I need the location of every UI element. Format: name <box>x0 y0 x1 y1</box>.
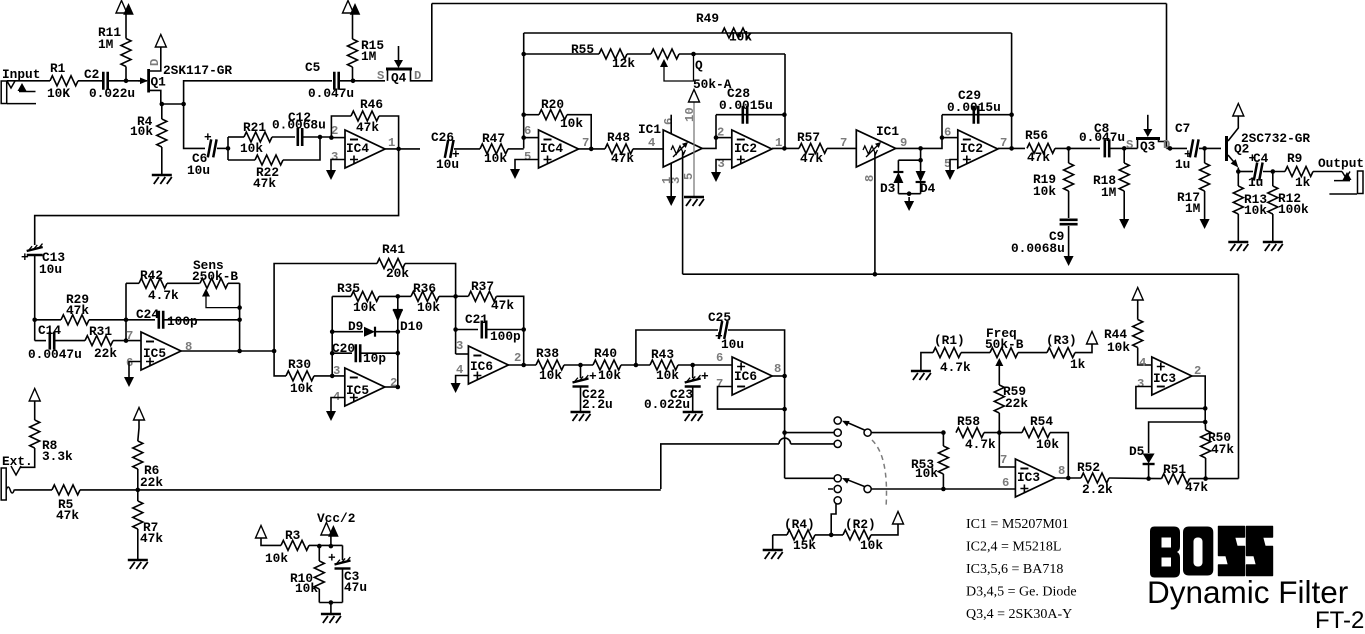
svg-text:R31: R31 <box>89 324 112 339</box>
wire R22 to top rail <box>283 137 320 160</box>
junction R50 top <box>1203 420 1208 425</box>
wire IC1b out <box>896 115 942 149</box>
wire to IC4 pin2 <box>331 137 345 139</box>
resistor R48 <box>605 144 633 154</box>
wire R4 to R2 <box>815 534 843 536</box>
wire IC2a pin3 <box>716 160 732 169</box>
resistor R54 <box>1022 428 1050 438</box>
svg-text:D3: D3 <box>880 181 896 196</box>
svg-text:0.0015u: 0.0015u <box>719 98 773 113</box>
BOSS logo <box>1150 527 1180 578</box>
power arrow above R8 <box>29 389 40 402</box>
svg-text:47k: 47k <box>1211 442 1234 457</box>
junction R20 left <box>521 112 526 117</box>
junction pin2/R46 <box>329 135 334 140</box>
wire IC6a pin4 <box>456 376 469 380</box>
switch mechanical link dashed <box>872 440 886 508</box>
input jack J1 <box>1 81 7 104</box>
svg-text:R46: R46 <box>360 97 383 112</box>
junction IC5b output <box>396 385 401 390</box>
junction D3/D4 <box>918 146 923 151</box>
svg-text:10k: 10k <box>240 141 263 156</box>
svg-text:2.2k: 2.2k <box>1082 482 1113 497</box>
wire R42 to Sens <box>167 282 200 284</box>
bias arrow IC2a pin3 <box>715 168 717 172</box>
svg-text:22k: 22k <box>1005 396 1028 411</box>
op-amp IC3a <box>1015 459 1055 497</box>
wire Freq wiper to R59 <box>998 364 1000 385</box>
svg-text:R1: R1 <box>50 61 66 76</box>
resistor R19 body <box>1064 163 1074 191</box>
junction pot wiper <box>691 52 696 57</box>
resistor R8 body <box>30 420 40 448</box>
svg-text:D5: D5 <box>1129 444 1145 459</box>
wire R18 down <box>1123 191 1125 215</box>
wire pot to (R3) <box>1018 352 1047 354</box>
capacitor C29 <box>974 106 978 124</box>
wire D bottom rail <box>898 193 920 195</box>
junction C20 right <box>396 351 401 356</box>
wire R4 to gnd <box>161 147 163 174</box>
op-amp IC6b <box>732 357 772 395</box>
resistor R44 body <box>1133 320 1143 348</box>
Q4 drain lead riser <box>411 4 432 81</box>
svg-text:R3: R3 <box>285 528 301 543</box>
svg-text:IC1: IC1 <box>638 122 661 137</box>
svg-text:12k: 12k <box>612 56 635 71</box>
wire IC4b output <box>579 148 606 150</box>
IC1a pin6 stub <box>670 115 672 134</box>
junction R50 bottom <box>1203 476 1208 481</box>
svg-text:1M: 1M <box>1101 185 1117 200</box>
junction C21 left <box>453 327 458 332</box>
wire up to C25 <box>636 330 718 365</box>
wire to C22 <box>580 365 582 378</box>
wire C14 to R31 <box>55 340 85 342</box>
svg-text:R40: R40 <box>594 346 617 361</box>
svg-text:+: + <box>204 130 212 145</box>
wire R55 to pot Q <box>627 53 651 55</box>
svg-text:IC2: IC2 <box>960 141 983 156</box>
output jack J2 <box>1342 172 1350 179</box>
svg-text:S: S <box>377 69 384 83</box>
wire to R10 <box>318 546 320 561</box>
wire R53 to pole B rail <box>942 474 944 489</box>
resistor R52 <box>1081 473 1109 483</box>
svg-text:6: 6 <box>716 351 723 365</box>
wire IC3a output <box>1055 477 1081 479</box>
svg-text:47k: 47k <box>800 151 823 166</box>
wire IC2b pin5 <box>950 160 958 167</box>
svg-text:8: 8 <box>1058 464 1065 478</box>
wire R3 to power <box>1075 344 1092 353</box>
junction IC2a pin2 <box>714 135 719 140</box>
wire to R35 <box>332 295 351 297</box>
junction C5/R15 <box>351 79 356 84</box>
svg-text:47k: 47k <box>356 120 379 135</box>
wire R59 down <box>998 413 1000 433</box>
svg-text:10u: 10u <box>436 157 459 172</box>
power arrow Vcc above R15 <box>343 1 354 14</box>
junction D9 right <box>396 329 401 334</box>
svg-text:IC3: IC3 <box>1017 470 1040 485</box>
wire R35 right <box>379 295 398 297</box>
junction D5 bottom <box>1146 476 1151 481</box>
wire R1 to C2 <box>78 80 103 82</box>
svg-text:R57: R57 <box>797 130 820 145</box>
junction C6 <box>226 146 231 151</box>
wire to C24 <box>126 319 155 321</box>
wire to R7 <box>137 490 139 501</box>
IC1a pin8 line down <box>682 152 684 274</box>
bias arrow below R17 <box>1204 215 1206 219</box>
svg-text:D9: D9 <box>348 319 363 334</box>
svg-text:0.022u: 0.022u <box>644 397 690 412</box>
svg-text:D10: D10 <box>400 319 423 334</box>
wire C25 to output riser <box>728 330 785 478</box>
switch pole A <box>864 429 871 436</box>
wire C29 rail <box>942 114 1012 116</box>
wire Vcc2 stem <box>330 536 332 546</box>
wire power to R44 <box>1137 300 1139 320</box>
wire to IC4b pin6 <box>524 137 539 139</box>
wire ext to R5 <box>15 489 52 491</box>
svg-text:250k-B: 250k-B <box>192 269 238 284</box>
wire R13 to gnd <box>1237 214 1239 241</box>
svg-text:6: 6 <box>524 124 531 138</box>
svg-text:IC5: IC5 <box>143 346 166 361</box>
svg-text:IC6: IC6 <box>734 369 757 384</box>
wire D4 bottom <box>920 182 922 194</box>
junction C21 right <box>521 327 526 332</box>
op-amp IC2b <box>958 130 998 168</box>
svg-text:Q3: Q3 <box>1140 139 1156 154</box>
wire R50 down <box>1205 458 1207 479</box>
wire R9 to output jack <box>1313 171 1342 173</box>
svg-text:10k: 10k <box>1036 437 1059 452</box>
bias arrow below C9 <box>1068 252 1070 256</box>
svg-text:5: 5 <box>524 150 531 164</box>
wire input to R1 <box>7 80 50 82</box>
svg-text:4.7k: 4.7k <box>148 288 179 303</box>
resistor R4 body <box>157 119 167 147</box>
svg-text:6: 6 <box>662 118 676 125</box>
svg-text:C24: C24 <box>136 307 159 322</box>
wire R7 to gnd <box>137 529 139 559</box>
wire D9 right <box>375 331 398 333</box>
junction R17 top <box>1202 146 1207 151</box>
pot 50k-A wiper return <box>664 54 694 81</box>
wire IC4a pin3 <box>331 160 345 167</box>
junction R6/R7 <box>136 488 141 493</box>
wire R41 to right <box>405 264 456 297</box>
svg-text:50k-A: 50k-A <box>693 77 732 92</box>
wire left rail x524 <box>523 33 525 148</box>
ext jack J3 <box>1 468 6 500</box>
switch contact 1 <box>834 417 841 424</box>
svg-text:IC2: IC2 <box>734 141 757 156</box>
svg-text:3: 3 <box>456 339 463 353</box>
junction D network top <box>918 158 923 163</box>
resistor R31 <box>85 336 113 346</box>
svg-text:2.2u: 2.2u <box>582 397 613 412</box>
svg-text:4.7k: 4.7k <box>965 437 996 452</box>
svg-text:47k: 47k <box>491 298 514 313</box>
junction D9 left <box>330 329 335 334</box>
svg-text:50k-B: 50k-B <box>985 337 1024 352</box>
svg-text:10k: 10k <box>656 368 679 383</box>
ground below R12 <box>1263 241 1283 244</box>
svg-text:Vcc/2: Vcc/2 <box>317 511 355 526</box>
wire IC5a output <box>181 350 274 352</box>
transistor Q2 2SC732-GR <box>1225 136 1228 161</box>
bias arrow D3/D4 <box>908 197 910 201</box>
svg-text:47k: 47k <box>611 151 634 166</box>
svg-text:1k: 1k <box>1070 357 1086 372</box>
wire C3 down <box>342 569 344 603</box>
wire R52 to D5 node <box>1109 477 1162 480</box>
resistor (R2) body <box>843 530 871 540</box>
svg-text:R52: R52 <box>1077 460 1100 475</box>
svg-text:0.0015u: 0.0015u <box>947 100 1001 115</box>
capacitor C28 <box>743 106 747 124</box>
wire C5 to Q4 S <box>340 80 386 82</box>
junction R55 rail <box>521 52 526 57</box>
junction output/R41 <box>272 349 277 354</box>
svg-text:10u: 10u <box>187 163 210 178</box>
wire row4 to contact <box>785 477 834 479</box>
resistor R47 <box>480 144 508 154</box>
svg-text:10k: 10k <box>417 300 440 315</box>
junction pin7 loop <box>782 407 787 412</box>
resistor R53 body <box>938 446 948 474</box>
junction R18 top <box>1122 146 1127 151</box>
svg-text:R36: R36 <box>413 281 436 296</box>
wire down to R30 <box>274 351 286 376</box>
wire control riser right <box>1238 274 1240 478</box>
svg-text:0.0047u: 0.0047u <box>28 347 82 362</box>
wire power to R3 <box>261 538 281 545</box>
resistor R55 <box>599 49 627 59</box>
svg-text:0.047u: 0.047u <box>1079 130 1125 145</box>
wire ext rail <box>80 489 661 491</box>
wire top rail A <box>432 3 1167 5</box>
capacitor C4 electrolytic <box>1254 163 1263 181</box>
op-amp IC1a OTA <box>663 130 702 167</box>
pot 50k-A body <box>651 49 679 59</box>
wire C12 to pin2 <box>303 136 331 138</box>
svg-text:47k: 47k <box>253 176 276 191</box>
svg-text:10k: 10k <box>539 368 562 383</box>
wire R21/R22 left rail <box>227 137 229 160</box>
svg-text:(R1): (R1) <box>934 333 965 348</box>
wire C24 to right rail <box>164 319 240 321</box>
power arrow Vcc above R11 <box>116 1 127 14</box>
capacitor C25 electrolytic <box>719 321 728 339</box>
wire control rail y274 <box>683 273 1239 275</box>
wire R29 to pin7 rail <box>89 319 126 321</box>
Q3 drain lead <box>1159 140 1167 142</box>
wire to R20 <box>524 114 539 116</box>
wire to C20 <box>332 352 352 354</box>
svg-text:47u: 47u <box>344 580 367 595</box>
svg-text:C26: C26 <box>431 130 454 145</box>
wire R10/C3 join <box>319 602 342 604</box>
svg-text:8: 8 <box>185 340 192 354</box>
ground IC1a pin5 <box>684 196 704 199</box>
svg-text:10k: 10k <box>130 124 153 139</box>
wire R40 to R43 <box>621 364 650 366</box>
switch contact 5 <box>834 485 841 492</box>
wire down to IC6a pin3 <box>455 296 457 354</box>
wire C4 to R9 <box>1263 171 1285 173</box>
switch contact 2 <box>834 429 841 436</box>
svg-text:C5: C5 <box>305 60 321 75</box>
junction R4/R2 <box>829 533 834 538</box>
Q1 gate arrow <box>140 77 148 84</box>
svg-text:3: 3 <box>333 364 340 378</box>
wire R2 to power <box>871 524 898 535</box>
junction R22/C12 <box>318 135 323 140</box>
wire R21 to C12 <box>272 136 295 138</box>
svg-text:7: 7 <box>126 329 133 343</box>
junction Vcc2 arrow <box>329 544 334 549</box>
capacitor C26 electrolytic <box>445 140 454 158</box>
resistor R6 body <box>133 441 143 469</box>
capacitor C14 <box>50 332 54 350</box>
Q1 source lead <box>150 90 161 104</box>
resistor R36 <box>411 291 439 301</box>
svg-text:R43: R43 <box>651 347 674 362</box>
resistor R38 <box>536 360 564 370</box>
wire R36 right <box>439 295 456 297</box>
wire to R50 <box>1204 422 1206 430</box>
junction Sens wiper <box>237 305 242 310</box>
svg-text:6: 6 <box>944 126 951 140</box>
resistor R12 body <box>1268 186 1278 214</box>
wire to R36 <box>398 295 411 297</box>
resistor R41 <box>377 259 405 269</box>
resistor R50 body <box>1201 430 1211 458</box>
svg-text:2: 2 <box>514 351 521 365</box>
wire R44 to IC3b pin4 <box>1138 348 1152 366</box>
resistor R49 <box>722 28 750 38</box>
junction Q2 emitter <box>1236 169 1241 174</box>
svg-text:R51: R51 <box>1163 462 1186 477</box>
transistor Q4 JFET switch <box>386 68 412 71</box>
svg-text:D: D <box>414 69 421 83</box>
capacitor C3 electrolytic <box>335 561 351 565</box>
svg-text:3: 3 <box>1137 377 1144 391</box>
wire C20 right <box>361 352 398 354</box>
R53 <box>941 430 946 435</box>
bias arrow below R18 <box>1123 215 1125 219</box>
svg-text:0.022u: 0.022u <box>89 86 135 101</box>
wire rail A to Q3 drain <box>1166 4 1168 149</box>
junction IC2b pin6 <box>940 135 945 140</box>
svg-text:R55: R55 <box>571 42 594 57</box>
wire C2 to Q1 gate <box>108 80 147 82</box>
wire C7 to Q2 base <box>1199 147 1221 149</box>
wire IC5b pin4 <box>331 398 345 408</box>
pole A arm <box>845 422 865 431</box>
wire to R4 <box>161 104 163 119</box>
capacitor C21 <box>482 321 486 339</box>
resistor R11 body <box>121 39 131 67</box>
wire R55 rail left <box>524 53 599 55</box>
capacitor C12 <box>298 128 302 146</box>
svg-text:R48: R48 <box>607 130 630 145</box>
junction IC1b pin8 <box>873 272 878 277</box>
resistor R3 <box>281 540 309 550</box>
svg-text:1k: 1k <box>1295 175 1311 190</box>
wire ext tip <box>6 487 15 493</box>
wire row3 to contact <box>791 443 834 445</box>
svg-text:R42: R42 <box>140 268 163 283</box>
ground left of (R1) <box>911 370 931 373</box>
power arrow Vcc/2 <box>321 523 332 536</box>
svg-text:Q3,4 = 2SK30A-Y: Q3,4 = 2SK30A-Y <box>966 607 1072 622</box>
svg-text:10k: 10k <box>729 30 752 45</box>
wire to gnd <box>330 603 332 614</box>
wire right feedback rail <box>397 296 399 387</box>
junction R36/R37 <box>453 294 458 299</box>
svg-text:22k: 22k <box>94 346 117 361</box>
svg-text:D: D <box>148 59 162 66</box>
svg-text:R35: R35 <box>337 281 360 296</box>
capacitor C7 electrolytic <box>1190 139 1199 157</box>
svg-text:10k: 10k <box>860 538 883 553</box>
svg-text:R38: R38 <box>536 346 559 361</box>
wire to R13 <box>1237 172 1239 187</box>
svg-text:IC1 = M5207M01: IC1 = M5207M01 <box>966 517 1069 532</box>
wire to R17 <box>1204 148 1206 163</box>
wire R11 to gate <box>125 67 127 81</box>
svg-text:R37: R37 <box>471 279 494 294</box>
wire IC6b output <box>772 375 785 377</box>
wire to D network <box>920 148 922 160</box>
svg-text:R49: R49 <box>696 11 719 26</box>
junction C28 right <box>782 112 787 117</box>
resistor R10 body <box>314 561 324 589</box>
svg-text:3: 3 <box>331 150 338 164</box>
wire R49 right riser <box>1011 33 1013 148</box>
wire R37 to output <box>496 296 523 365</box>
resistor R56 <box>1027 143 1055 153</box>
wire pin2 to R46 <box>331 116 351 138</box>
capacitor C13 electrolytic <box>27 247 43 251</box>
wire IC6a output <box>508 364 536 366</box>
junction R12 top <box>1271 169 1276 174</box>
Q2 emitter down <box>1237 168 1239 172</box>
Sens wiper return <box>206 283 240 307</box>
wire R15 down <box>352 67 354 81</box>
junction C2/R11/Q1 <box>124 79 129 84</box>
wire rail down to IC2a out <box>784 54 786 148</box>
junction R58/R59/R54 <box>997 430 1002 435</box>
wire to R22 <box>228 159 255 161</box>
capacitor C22 electrolytic <box>573 379 589 383</box>
junction R29/C24 <box>124 318 129 323</box>
svg-text:S: S <box>1126 138 1133 152</box>
wire IC1a out up <box>702 115 716 149</box>
resistor R43 <box>650 360 678 370</box>
resistor R35 <box>351 291 379 301</box>
junction C20 left <box>330 351 335 356</box>
diode D5 <box>1143 454 1155 464</box>
junction IC2b output <box>1009 146 1014 151</box>
wire IC4a output <box>385 148 420 150</box>
